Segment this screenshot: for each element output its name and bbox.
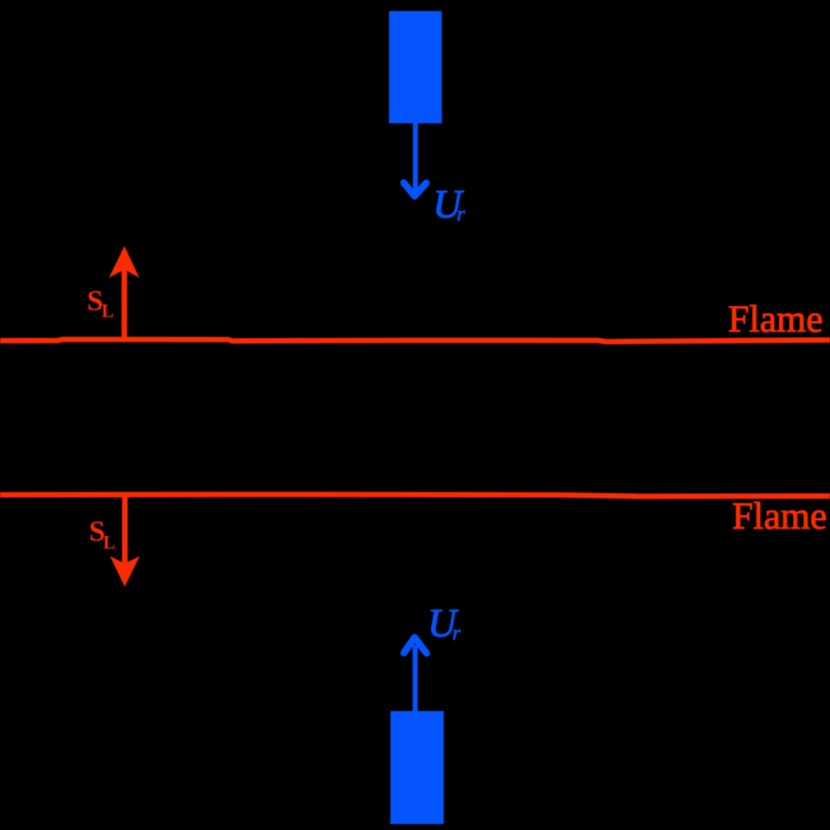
arrow SL top (barbed head) — [109, 246, 139, 278]
flame line 1 — [0, 339, 830, 341]
svg-text:L: L — [103, 533, 115, 553]
label Flame top — [728, 299, 823, 341]
nozzle (bottom) — [391, 711, 444, 824]
label Flame bottom — [732, 496, 827, 538]
arrow SL bottom (barbed head) — [110, 556, 140, 587]
nozzle (top) — [389, 11, 442, 123]
label SL bottom — [89, 516, 115, 554]
label SL top — [87, 285, 114, 322]
arrow Ur top (chevron head) — [404, 183, 427, 196]
svg-text:Flame: Flame — [732, 496, 827, 538]
arrow SL bottom (shaft) — [122, 496, 128, 565]
arrow SL top (shaft) — [122, 268, 128, 341]
svg-text:L: L — [102, 302, 114, 322]
svg-text:Flame: Flame — [728, 299, 823, 341]
label Ur top — [433, 181, 466, 226]
arrow Ur bottom (chevron head) — [404, 637, 427, 653]
arrow Ur bottom (shaft) — [413, 645, 418, 711]
flame line 2 — [0, 494, 830, 496]
label Ur bottom — [428, 601, 462, 646]
arrow Ur top (shaft) — [413, 123, 418, 195]
svg-text:r: r — [452, 621, 461, 645]
svg-text:r: r — [457, 201, 466, 225]
